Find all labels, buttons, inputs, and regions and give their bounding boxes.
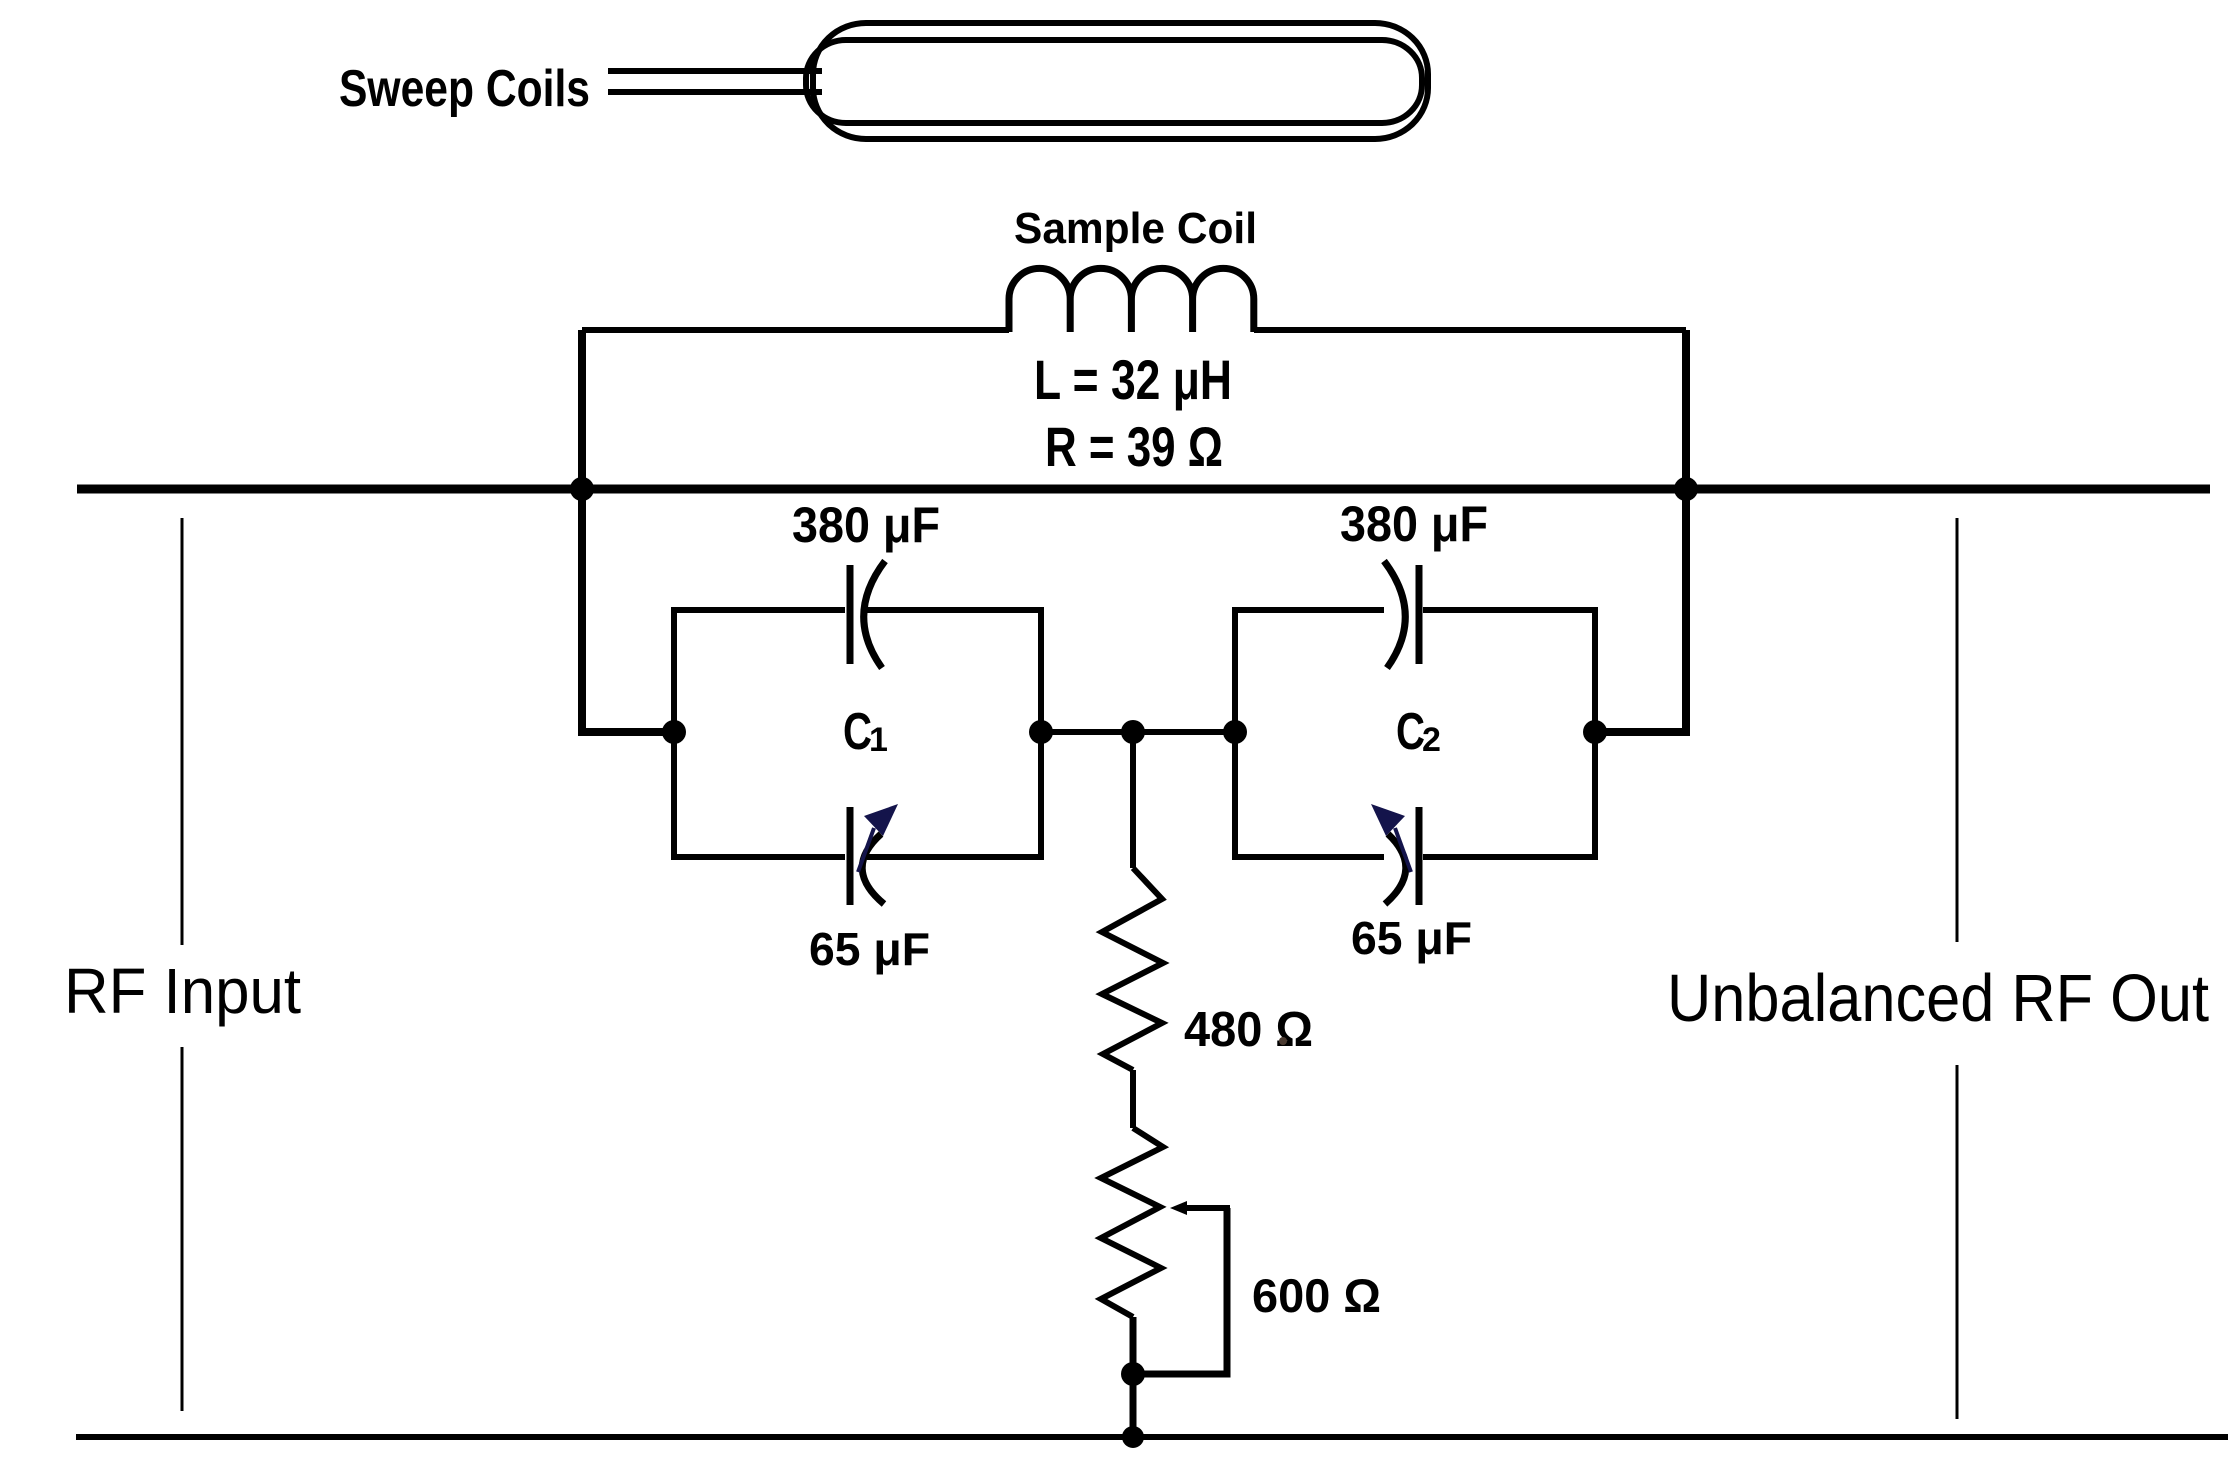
wire bottom rail [76, 1434, 2228, 1440]
svg-text:C: C [843, 703, 872, 761]
node C2 left [1223, 720, 1247, 744]
RF input bracket upper [181, 518, 184, 945]
wire pot bottom lead [1130, 1317, 1137, 1437]
svg-text:65 μF: 65 μF [809, 923, 930, 975]
node bottom rail junction [1122, 1426, 1144, 1448]
wire resistor lead top [1130, 732, 1136, 868]
svg-text:Sample Coil: Sample Coil [1014, 204, 1257, 253]
node C1 left [662, 720, 686, 744]
potentiometer 600 ohm [1101, 1128, 1163, 1317]
wire mid center [1041, 729, 1235, 735]
node wiper junction [1121, 1362, 1145, 1386]
svg-text:65 μF: 65 μF [1351, 912, 1472, 964]
node center [1121, 720, 1145, 744]
svg-text:2: 2 [1422, 721, 1441, 759]
wire wiper loop [1133, 1208, 1227, 1374]
svg-text:L = 32 μH: L = 32 μH [1034, 348, 1232, 411]
node junction top right [1674, 477, 1698, 501]
svg-text:RF Input: RF Input [64, 955, 301, 1027]
svg-text:R = 39 Ω: R = 39 Ω [1045, 415, 1223, 478]
wire C2 box [1235, 610, 1595, 857]
svg-text:380 μF: 380 μF [1340, 496, 1488, 552]
svg-text:600 Ω: 600 Ω [1252, 1269, 1381, 1322]
capacitor C1 variable curved plate [862, 834, 884, 904]
capacitor C1 variable plate [847, 807, 854, 905]
sweep coil loop outer [813, 23, 1428, 139]
wire left drop to C1 [582, 330, 674, 732]
potentiometer wiper arrow [1170, 1201, 1230, 1215]
capacitor C2 fixed plate [1416, 565, 1423, 664]
wire between resistors [1130, 1070, 1136, 1128]
node C1 right [1029, 720, 1053, 744]
capacitor C1 fixed plate [847, 565, 854, 664]
small dot in 480 label [1279, 1037, 1287, 1045]
node junction top left [570, 477, 594, 501]
wire sweep coil lead upper [608, 68, 822, 74]
sweep coil loop inner [806, 40, 1422, 123]
svg-text:1: 1 [869, 721, 888, 759]
capacitor C2 variable plate [1416, 807, 1423, 905]
svg-text:C: C [1396, 703, 1425, 761]
capacitor C1 fixed curved plate [864, 561, 885, 668]
svg-text:Unbalanced RF Out: Unbalanced RF Out [1667, 961, 2209, 1036]
capacitor C2 variable curved plate [1385, 834, 1406, 904]
svg-text:380 μF: 380 μF [792, 497, 940, 553]
capacitor C2 fixed curved plate [1384, 561, 1405, 668]
wire inductor left [582, 327, 1009, 333]
svg-text:480 Ω: 480 Ω [1184, 1003, 1313, 1057]
arrow C1 variable [858, 804, 898, 872]
resistor 480 ohm [1102, 868, 1163, 1070]
RF out bracket lower [1956, 1065, 1959, 1419]
inductor L sample coil [1009, 268, 1254, 332]
wire sweep coil lead lower [608, 89, 822, 95]
node C2 right [1583, 720, 1607, 744]
wire right drop to C2 [1595, 330, 1686, 732]
wire top rail RF input [77, 485, 2210, 494]
wire C1 box [674, 610, 1041, 857]
wire inductor right [1254, 327, 1686, 333]
RF input bracket lower [181, 1047, 184, 1411]
arrow C2 variable [1371, 804, 1411, 872]
RF out bracket upper [1956, 518, 1959, 942]
svg-text:Sweep Coils: Sweep Coils [339, 60, 590, 118]
